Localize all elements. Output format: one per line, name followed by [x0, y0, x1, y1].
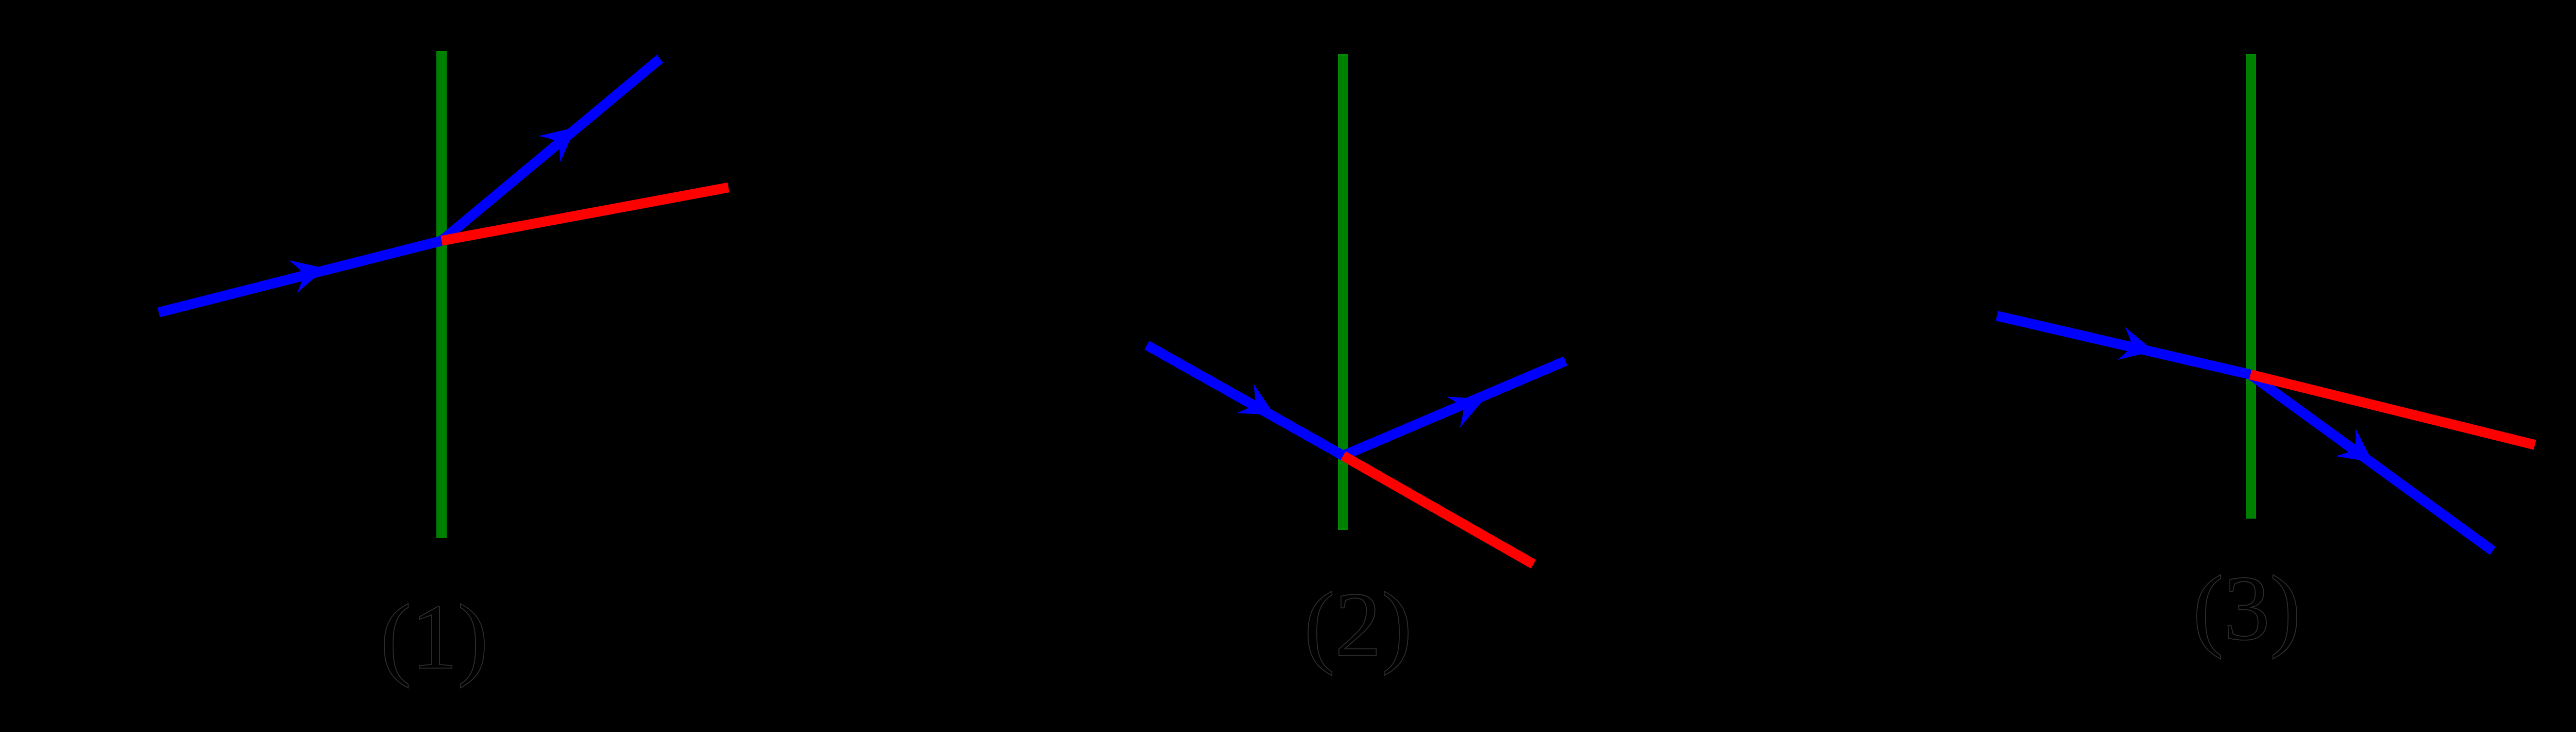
svg-text:(3): (3) — [2193, 557, 2301, 659]
svg-text:(1): (1) — [380, 586, 488, 688]
svg-text:(2): (2) — [1304, 573, 1412, 676]
